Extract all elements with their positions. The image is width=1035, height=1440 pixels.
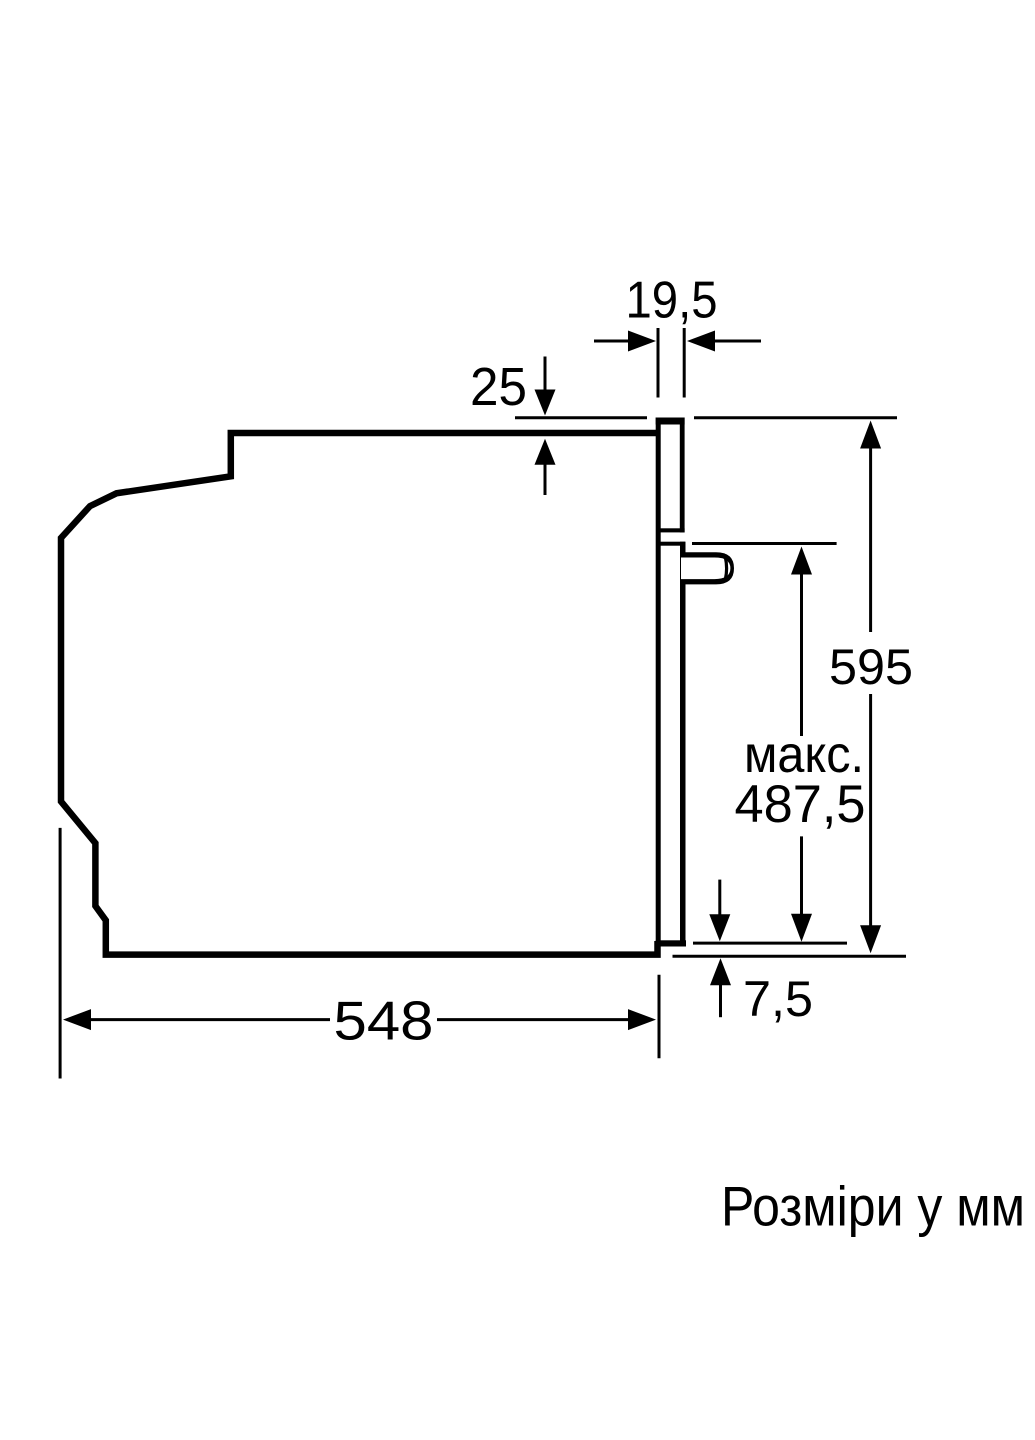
svg-text:25: 25 (470, 357, 527, 417)
dim 487,5 top arrow (791, 547, 812, 737)
dim 548 left extension line (59, 828, 62, 1079)
dim 25 down arrow (535, 357, 556, 416)
dim 595 top arrow (860, 421, 881, 633)
front frame top edge (656, 418, 685, 425)
control panel bottom edge (657, 528, 685, 532)
svg-text:Розміри у мм: Розміри у мм (721, 1175, 1025, 1238)
dim 548 left arrow (63, 1009, 330, 1030)
dim 548 right extension line (658, 975, 661, 1058)
dim 19,5 right extension line (683, 328, 686, 398)
oven body outline (61, 433, 658, 955)
door handle (681, 552, 734, 584)
dim 487,5 top extension line (692, 542, 837, 545)
handle interior (681, 558, 730, 580)
svg-text:548: 548 (334, 991, 434, 1052)
dim 595 bottom arrow (860, 694, 881, 953)
dim 7,5 lower arrow (710, 958, 731, 1017)
dim 25 reference line (515, 416, 647, 419)
dim 25 up arrow (535, 439, 556, 495)
dim 595 bottom extension line (673, 955, 907, 958)
dim 7,5 upper arrow (709, 880, 730, 942)
control panel right edge (680, 418, 685, 533)
dim 595 top extension line (694, 416, 897, 419)
dim 19,5 left arrow (594, 331, 656, 352)
svg-text:595: 595 (829, 638, 913, 695)
dim 19,5 right arrow (687, 331, 761, 352)
svg-text:7,5: 7,5 (743, 971, 813, 1027)
dim 487,5 bottom extension line (693, 942, 847, 945)
front frame left rail (656, 418, 661, 947)
svg-text:487,5: 487,5 (735, 775, 866, 834)
door top edge (658, 542, 685, 546)
dim 548 right arrow (437, 1009, 656, 1030)
handle inner cap line (725, 558, 726, 580)
dim 487,5 bottom arrow (791, 836, 812, 941)
door right edge (680, 542, 686, 947)
svg-text:19,5: 19,5 (626, 271, 718, 329)
door bottom edge (656, 940, 686, 946)
dim 19,5 left extension line (657, 328, 660, 398)
